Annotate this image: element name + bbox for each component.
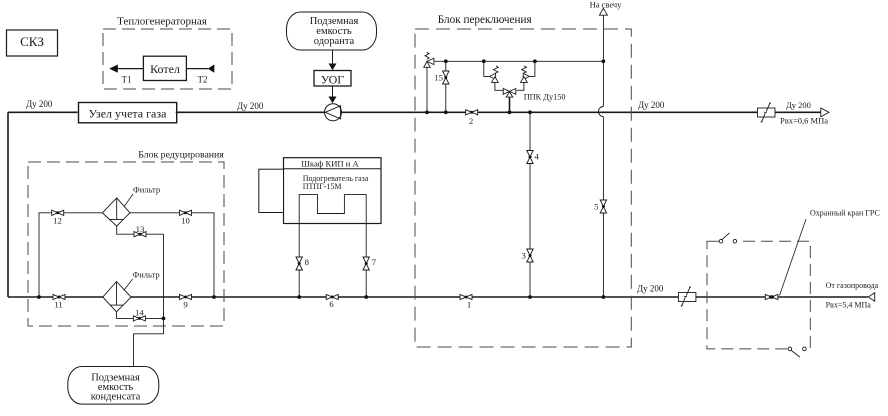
wire drain to condensate tank [134, 318, 164, 366]
valve 4 [527, 151, 540, 164]
filter F1 (upper) [102, 198, 129, 226]
node bypass line A bottom [528, 295, 532, 299]
pipeline top main segment [342, 111, 758, 113]
node relief/ППК-1 [482, 59, 486, 63]
valve 8 [296, 257, 310, 270]
svg-text:4: 4 [535, 151, 540, 161]
odorizer [325, 104, 342, 121]
svg-text:ППК Ду150: ППК Ду150 [524, 92, 566, 101]
pilot valve ППК-2 (right, spring) [517, 61, 535, 90]
svg-text:Узел учета газа: Узел учета газа [89, 106, 168, 120]
boiler Котел [143, 56, 186, 80]
node relief/valve15 [444, 59, 448, 63]
heater cabinet Шкаф КИП и А [284, 158, 382, 224]
wire drain riser [163, 234, 165, 318]
node heater right [364, 295, 368, 299]
dashed enclosure Блок переключения [415, 29, 631, 347]
node drain junction [162, 317, 166, 321]
svg-text:11: 11 [54, 300, 62, 310]
valve 11 [53, 294, 65, 309]
wire upper reduction branch right [130, 213, 214, 297]
box СКЗ [7, 30, 58, 56]
wire vent stack upper [602, 15, 604, 106]
metering unit Узел учета газа [79, 103, 177, 123]
dashed enclosure Блок редуцирования [28, 162, 224, 326]
svg-text:Рвх=5,4 МПа: Рвх=5,4 МПа [826, 300, 872, 309]
wire T2 (return) [186, 65, 214, 85]
svg-text:Т1: Т1 [122, 75, 132, 85]
svg-text:Котел: Котел [150, 62, 180, 76]
tank Подземная емкость одоранта [287, 12, 377, 50]
node relief riser [425, 110, 429, 114]
relief valve (left, spring angle valve) [424, 52, 434, 112]
valve 2 [466, 110, 478, 126]
svg-text:Т2: Т2 [198, 75, 208, 85]
svg-text:13: 13 [136, 224, 145, 234]
disconnect switch (top) [719, 233, 737, 244]
pipeline top outlet segment [775, 111, 821, 113]
pilot valve ППК-1 (left, spring) [484, 61, 503, 90]
svg-text:5: 5 [594, 202, 598, 212]
valve 10 [180, 210, 192, 225]
inlet flow arrow [868, 293, 874, 302]
valve 14 [133, 307, 145, 321]
disconnect switch (bottom) [788, 346, 807, 357]
valve 12 [52, 210, 64, 225]
vent stack outlet [599, 8, 607, 15]
svg-text:15: 15 [434, 72, 443, 82]
svg-text:Рвх=0,6 МПа: Рвх=0,6 МПа [780, 116, 828, 126]
svg-text:10: 10 [181, 216, 190, 226]
svg-text:Ду 200: Ду 200 [237, 101, 264, 111]
pipeline bottom main [8, 296, 868, 298]
svg-text:одоранта: одоранта [314, 36, 355, 47]
wire heater pipe left [298, 224, 300, 298]
svg-text:1: 1 [467, 300, 471, 310]
svg-text:7: 7 [372, 257, 377, 267]
node ППК outlet [508, 110, 512, 114]
pipeline top inlet segment [8, 111, 78, 113]
svg-text:Блок переключения: Блок переключения [438, 14, 532, 26]
unit УОГ [314, 71, 351, 87]
svg-text:Ду 200: Ду 200 [638, 100, 665, 110]
label Фильтр (lower) [124, 270, 160, 291]
filter F2 (lower) [103, 282, 131, 312]
svg-text:Теплогенераторная: Теплогенераторная [117, 16, 207, 28]
pipeline top segment to odorizer [176, 111, 325, 113]
svg-text:На свечу: На свечу [590, 0, 623, 10]
svg-text:Блок редуцирования: Блок редуцирования [138, 150, 224, 161]
svg-text:3: 3 [521, 250, 525, 260]
node upper branch right [212, 295, 216, 299]
wire vent stack lower [602, 117, 604, 298]
leader Охранный кран ГРС [780, 208, 880, 295]
dashed enclosure Теплогенераторная [103, 29, 232, 89]
three-way valve ППК Ду150 [503, 89, 565, 113]
valve 3 [521, 249, 533, 262]
svg-text:Фильтр: Фильтр [133, 270, 160, 280]
insulating joint (top) [758, 102, 776, 122]
insulating joint (bottom) [678, 286, 696, 306]
svg-text:От газопровода: От газопровода [826, 281, 879, 290]
heater coil [299, 195, 366, 224]
svg-text:СКЗ: СКЗ [20, 34, 44, 49]
valve 6 [326, 294, 338, 309]
wire filter drain lower [117, 312, 164, 319]
riser left bypass wire [7, 112, 9, 297]
wire odorant tank to УОГ [329, 50, 337, 70]
crossover hop over pipeline [598, 107, 603, 117]
wire T1 (supply) [109, 65, 143, 85]
svg-text:9: 9 [183, 300, 187, 310]
wire bypass line A [529, 112, 531, 297]
svg-text:Ду 200: Ду 200 [637, 284, 664, 294]
svg-text:Ду 200: Ду 200 [786, 100, 811, 110]
valve 1 [460, 294, 472, 309]
svg-text:8: 8 [305, 257, 310, 267]
svg-text:6: 6 [329, 299, 334, 309]
svg-text:12: 12 [53, 216, 62, 226]
node upper branch left [37, 295, 41, 299]
svg-text:14: 14 [135, 307, 144, 317]
dashed enclosure Охранный кран [707, 241, 810, 349]
node bypass line A top [528, 110, 532, 114]
node heater left [297, 295, 301, 299]
wire filter drain upper [117, 226, 164, 234]
svg-text:ПТПГ-15М: ПТПГ-15М [303, 182, 342, 191]
tank Подземная емкость конденсата [68, 367, 159, 405]
guard valve Охранный кран ГРС [765, 294, 778, 299]
svg-text:конденсата: конденсата [91, 392, 141, 403]
wire heater pipe right [365, 224, 367, 298]
svg-text:УОГ: УОГ [321, 73, 345, 87]
valve 7 [363, 257, 377, 270]
heater side box [259, 169, 284, 212]
valve 13 [134, 224, 146, 237]
label Фильтр (upper) [125, 185, 161, 207]
svg-text:Ду 200: Ду 200 [26, 99, 53, 109]
svg-text:Охранный кран ГРС: Охранный кран ГРС [810, 208, 880, 217]
valve 15 [434, 61, 449, 112]
svg-text:2: 2 [469, 116, 473, 126]
node valve15 bottom [444, 110, 448, 114]
wire УОГ to odorizer [329, 86, 337, 103]
valve 5 [594, 200, 606, 213]
node relief/vent [602, 59, 606, 63]
wire relief header [434, 60, 603, 62]
outlet flow arrow [821, 108, 829, 117]
label Подогреватель газа ПТПГ-15М [303, 174, 369, 191]
svg-text:Шкаф КИП и А: Шкаф КИП и А [301, 158, 359, 168]
node relief/ППК-2 [533, 59, 537, 63]
svg-text:Фильтр: Фильтр [133, 185, 160, 195]
valve 9 [180, 294, 192, 309]
wire upper reduction branch left [39, 213, 102, 297]
node vent bottom [602, 295, 606, 299]
